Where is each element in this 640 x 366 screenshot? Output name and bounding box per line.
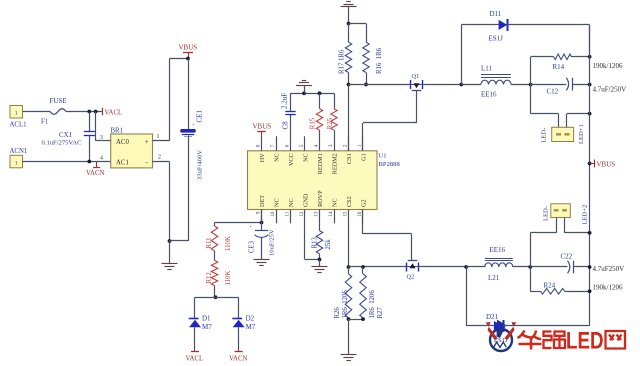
svg-text:VBUS: VBUS (179, 44, 198, 52)
svg-text:CS2: CS2 (346, 196, 353, 207)
svg-text:8: 8 (256, 144, 262, 147)
junction R27 bottom (361, 317, 365, 321)
ground under R26 (341, 319, 357, 360)
svg-text:LED: LED (566, 328, 604, 355)
svg-text:NC: NC (288, 198, 295, 207)
junction R16 bottom (364, 83, 368, 87)
power port VACN (86, 162, 104, 178)
svg-text:M7: M7 (246, 323, 256, 331)
diode D1 (189, 297, 213, 349)
svg-text:2: 2 (158, 155, 161, 161)
power port VACN bottom (229, 350, 247, 363)
watermark logo (486, 320, 517, 352)
svg-text:F1: F1 (41, 118, 49, 126)
wire minus node to CE1 bottom (170, 240, 189, 242)
svg-text:4.7uF250V: 4.7uF250V (593, 265, 625, 273)
connector LED2 (543, 204, 589, 225)
svg-text:R17 1R6: R17 1R6 (338, 49, 345, 74)
junction VBUS node (186, 57, 190, 61)
svg-text:G1: G1 (361, 153, 368, 161)
svg-text:LED-: LED- (541, 128, 548, 143)
svg-text:D2: D2 (246, 315, 255, 323)
svg-text:AC1: AC1 (116, 160, 129, 167)
svg-text:Q2: Q2 (407, 274, 415, 281)
svg-text:L11: L11 (481, 65, 493, 73)
wire node A down to LED1 loop (531, 85, 559, 128)
junction C12 right (588, 83, 592, 87)
svg-text:AC0: AC0 (116, 139, 129, 146)
svg-text:6: 6 (285, 144, 291, 147)
svg-text:14: 14 (328, 211, 334, 217)
junction C22 right (588, 265, 592, 269)
power port VACL bottom (186, 350, 204, 363)
junction LED1 plus (588, 112, 592, 116)
junction R24 right (588, 289, 592, 293)
svg-text:190k/1206: 190k/1206 (593, 284, 623, 292)
ground under R13 (312, 260, 328, 273)
svg-text:ES1J: ES1J (489, 35, 504, 43)
svg-text:10: 10 (270, 211, 276, 217)
svg-text:D21: D21 (486, 313, 499, 321)
svg-text:7: 7 (270, 144, 276, 147)
svg-text:L21: L21 (488, 274, 500, 282)
pin number 3 (100, 135, 103, 141)
svg-text:+: + (145, 138, 149, 146)
resistor R24 (541, 282, 565, 295)
pin number 2 (158, 155, 161, 161)
svg-text:HV: HV (259, 153, 266, 162)
junction BR1 pin3 branch (94, 110, 98, 114)
svg-text:ACL1: ACL1 (10, 122, 27, 129)
wire BR1 pin3 (96, 112, 111, 141)
wire R14 right (571, 56, 589, 58)
power port VBUS top (179, 44, 198, 59)
svg-text:R13: R13 (312, 237, 319, 249)
wire ACL1 to fuse (23, 111, 51, 113)
resistor R27 (360, 267, 384, 319)
junction CX1 top (87, 110, 91, 114)
svg-text:M7: M7 (202, 323, 212, 331)
resistor R15 (309, 93, 322, 136)
junction BR1 minus node (168, 239, 172, 243)
svg-text:NC: NC (303, 153, 310, 162)
wire L21 right (513, 266, 531, 268)
wire LED2 loop left (530, 233, 532, 267)
svg-text:4: 4 (100, 156, 103, 162)
svg-text:FUSE: FUSE (50, 97, 67, 105)
svg-text:15: 15 (343, 211, 349, 217)
junction R14 right (588, 55, 592, 59)
svg-text:1: 1 (15, 160, 18, 166)
diode D2 (232, 297, 256, 349)
junction DET node (260, 221, 264, 225)
svg-text:G2: G2 (361, 199, 368, 207)
wire R11-R12 (214, 251, 216, 261)
wire G2 to Q2 gate (363, 210, 412, 261)
capacitor C8 (281, 93, 296, 136)
resistor R11 (206, 223, 232, 252)
wire LED2 plus pin (565, 218, 590, 233)
wire LED1 plus pin (567, 114, 590, 128)
svg-text:190k/1206: 190k/1206 (593, 62, 623, 70)
capacitor C12 (531, 78, 590, 96)
svg-text:LED-: LED- (543, 206, 550, 221)
svg-text:CS1: CS1 (346, 153, 353, 164)
label 4.7uF/250V top (593, 86, 627, 94)
svg-text:CE3: CE3 (249, 240, 256, 253)
svg-text:VBUS: VBUS (597, 161, 616, 169)
svg-text:110K: 110K (225, 236, 232, 251)
wire R17-R16 top (349, 23, 367, 25)
svg-text:13: 13 (314, 211, 320, 217)
wire R11 top to DET (215, 222, 262, 224)
svg-text:2.2uF: 2.2uF (281, 93, 289, 109)
junction node A (529, 83, 533, 87)
ground above C8 (296, 81, 312, 94)
svg-text:C8: C8 (281, 121, 289, 130)
wire CS2 column (348, 223, 350, 267)
junction R15 top (318, 91, 322, 95)
junction node B (528, 265, 532, 269)
svg-text:33uF/400V: 33uF/400V (197, 150, 204, 180)
junction divider-diodes (214, 295, 218, 299)
wire Q2 to L21 (466, 266, 485, 268)
wire Q2 drain (419, 266, 467, 268)
svg-text:NC: NC (274, 153, 281, 162)
pin number 4 (100, 156, 103, 162)
wire node B down to R24 (530, 267, 540, 292)
wire diode row (195, 297, 239, 299)
svg-text:BP2888: BP2888 (379, 161, 401, 168)
inductor L11 (481, 65, 511, 99)
label 190k/1206 top (593, 62, 623, 70)
svg-text:R14: R14 (553, 63, 565, 71)
wire D11 cathode (508, 25, 590, 57)
fuse F1 (41, 97, 67, 126)
resistor R12 (206, 261, 232, 286)
label 4.7uF250V bottom (593, 265, 625, 273)
svg-text:R11: R11 (206, 237, 213, 248)
connector ACN1 (10, 148, 28, 168)
wire CS1 column (348, 85, 350, 151)
svg-text:VACN: VACN (86, 170, 104, 177)
ground under CE3 (254, 260, 270, 266)
diode D11 (489, 10, 508, 43)
junction CX1 bottom (87, 160, 91, 164)
resistor R26 (334, 267, 352, 319)
resistor R16 (363, 24, 383, 85)
capacitor CE3 (249, 223, 276, 260)
resistor R17 (338, 24, 351, 85)
wire GND pin to R13 node (305, 223, 320, 259)
svg-text:BR1: BR1 (111, 128, 123, 135)
junction CS2 node (347, 265, 351, 269)
svg-text:EE16: EE16 (481, 91, 497, 99)
svg-text:C22: C22 (561, 253, 573, 261)
wire drain node up (461, 25, 498, 85)
svg-text:4.7uF/250V: 4.7uF/250V (593, 86, 627, 94)
wire Q1 drain (423, 84, 462, 86)
power port VBUS at HV pin (253, 123, 272, 137)
inductor L21 (485, 246, 513, 282)
svg-text:10uF/25V: 10uF/25V (269, 229, 276, 256)
svg-text:5: 5 (299, 144, 305, 147)
svg-text:1R6 1206: 1R6 1206 (369, 290, 376, 319)
wire R12 bottom (214, 286, 216, 298)
ground above R17 (341, 2, 357, 24)
svg-text:C12: C12 (547, 88, 559, 96)
wire D21 cathode (504, 325, 590, 327)
svg-text:R16 1R6: R16 1R6 (376, 47, 383, 74)
wire R26-R27 bottom (349, 319, 364, 321)
capacitor CE1 (180, 59, 203, 242)
IC U1 BP2888 body with pin stubs, pin names and pin numbers (248, 136, 401, 223)
wire VBUS right rail (589, 25, 591, 326)
wire R24 right (565, 291, 590, 293)
svg-text:0.1uF/275VAC: 0.1uF/275VAC (42, 140, 83, 147)
junction VBUS right (588, 162, 592, 166)
svg-text:11: 11 (285, 211, 291, 216)
wire source rail 2 (349, 266, 407, 268)
junction R27 top (361, 265, 365, 269)
junction Q1 drain node (459, 83, 463, 87)
wire node A up to R14 row (531, 57, 554, 85)
pin number 1 (157, 134, 160, 140)
bridge rectifier BR1 (111, 128, 153, 168)
svg-text:NC: NC (274, 198, 281, 207)
svg-text:DET: DET (259, 195, 266, 207)
wire L11 left (461, 84, 481, 86)
wire Q1 gate to G1 (363, 90, 417, 151)
junction R17 top (347, 22, 351, 26)
svg-text:VACL: VACL (105, 110, 123, 117)
junction CS1 node (347, 83, 351, 87)
junction ground rail (302, 91, 306, 95)
svg-text:4: 4 (314, 144, 320, 147)
svg-text:110K: 110K (225, 271, 232, 286)
svg-text:9: 9 (256, 211, 262, 214)
svg-text:1R6 1206: 1R6 1206 (342, 290, 349, 319)
svg-text:VBUS: VBUS (253, 123, 272, 131)
resistor R14 (553, 54, 572, 71)
wire ACN1 to BR1 pin4 (23, 161, 111, 163)
wire BR1 pin2 down (153, 162, 170, 242)
svg-text:+: + (249, 225, 252, 230)
svg-text:ROVP: ROVP (317, 190, 324, 207)
svg-text:NC: NC (332, 198, 339, 207)
connector LED1 (541, 124, 586, 144)
svg-text:1: 1 (157, 134, 160, 140)
svg-text:LED+1: LED+1 (578, 124, 585, 144)
label 190k/1206 bottom (593, 284, 623, 292)
wire LED2 minus pin (530, 218, 556, 233)
resistor R13 (312, 223, 333, 259)
svg-text:REDM1: REDM1 (317, 153, 324, 174)
capacitor C22 (530, 253, 589, 274)
svg-text:D11: D11 (490, 10, 502, 18)
junction R26 bottom (347, 317, 351, 321)
svg-text:ES1J: ES1J (494, 337, 508, 344)
svg-text:1: 1 (15, 111, 18, 117)
wire fuse to VACL (66, 111, 103, 113)
svg-text:2: 2 (343, 144, 349, 147)
junction Q2 drain node (464, 265, 468, 269)
junction LED2 plus (588, 231, 592, 235)
svg-text:R27: R27 (377, 307, 384, 319)
svg-text:VCC: VCC (288, 153, 295, 166)
resistor R25 (327, 93, 337, 136)
svg-text:Q1: Q1 (412, 73, 420, 80)
svg-text:R12: R12 (206, 272, 213, 284)
diode D21 (486, 313, 508, 344)
svg-text:CX1: CX1 (59, 131, 73, 139)
svg-text:VACL: VACL (186, 356, 204, 363)
power port VBUS right (590, 160, 616, 169)
svg-text:LED+2: LED+2 (582, 205, 589, 225)
svg-text:12: 12 (299, 211, 305, 217)
svg-text:ACN1: ACN1 (10, 148, 28, 155)
svg-text:+: + (191, 123, 195, 128)
connector ACL1 (10, 106, 27, 129)
wire BR1 pin1 to VBUS node (153, 59, 189, 141)
svg-text:CE1: CE1 (196, 110, 204, 123)
svg-text:VACN: VACN (229, 356, 247, 363)
transistor Q1 (410, 73, 422, 90)
svg-text:3: 3 (328, 144, 334, 147)
svg-text:U1: U1 (379, 153, 387, 160)
junction R13 bottom (318, 258, 322, 262)
svg-text:GND: GND (303, 193, 310, 207)
capacitor CX1 (42, 112, 95, 162)
svg-text:25k: 25k (325, 239, 332, 250)
wire C8 to REDM2 top rail (291, 93, 335, 95)
wire DET pin (261, 210, 263, 223)
svg-text:REDM2: REDM2 (332, 153, 339, 174)
svg-text:EE16: EE16 (490, 246, 506, 254)
power port VACL (103, 108, 123, 117)
svg-text:D1: D1 (202, 315, 211, 323)
svg-text:3: 3 (100, 135, 103, 141)
svg-text:R26: R26 (334, 307, 341, 319)
wire L11 right to node A (511, 84, 531, 86)
transistor Q2 (406, 261, 418, 281)
wire D21 branch down (466, 267, 494, 326)
watermark text 华强LED网 (518, 328, 626, 355)
svg-text:R24: R24 (544, 282, 556, 290)
svg-text:R25: R25 (327, 117, 334, 129)
svg-text:R15: R15 (309, 117, 316, 129)
wire source rail to Q1 (349, 84, 411, 86)
ground at BR1 minus (162, 241, 178, 270)
